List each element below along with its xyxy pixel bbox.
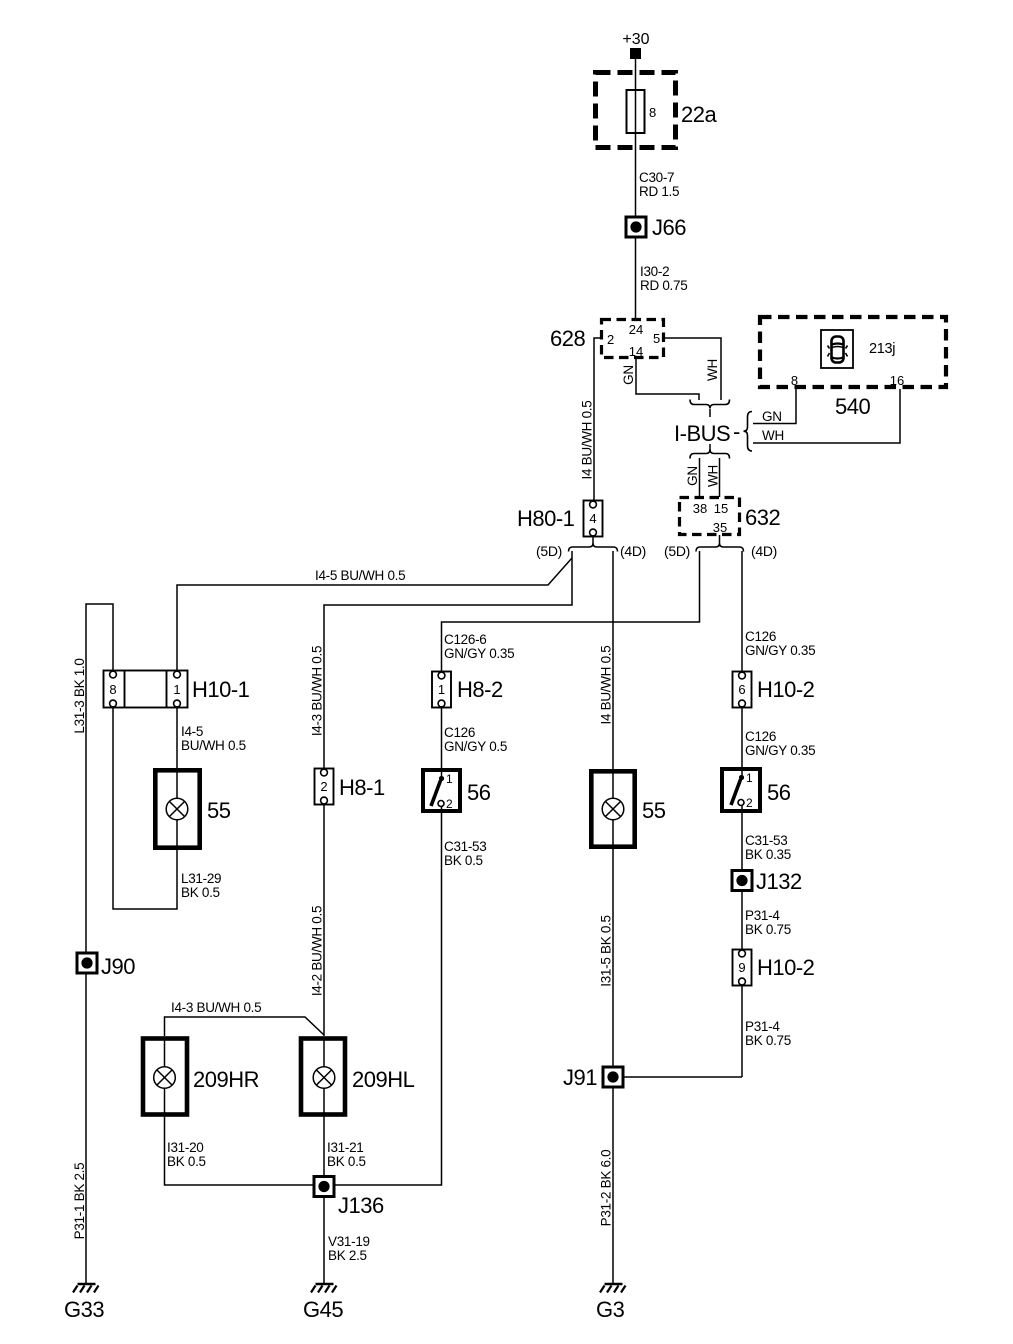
control module 540 [760, 317, 946, 419]
svg-text:BU/WH 0.5: BU/WH 0.5 [181, 738, 246, 753]
svg-text:RD 1.5: RD 1.5 [639, 184, 679, 199]
svg-text:628: 628 [550, 326, 585, 351]
svg-text:1: 1 [446, 772, 453, 786]
svg-text:BK 0.5: BK 0.5 [181, 885, 220, 900]
svg-text:56: 56 [767, 780, 791, 805]
svg-text:BK 0.75: BK 0.75 [745, 922, 791, 937]
svg-text:V31-19: V31-19 [328, 1234, 370, 1249]
svg-text:J66: J66 [652, 215, 686, 240]
fuse 8 [627, 72, 657, 148]
svg-text:1: 1 [173, 682, 180, 697]
svg-text:9: 9 [738, 960, 745, 975]
svg-text:I4-2 BU/WH 0.5: I4-2 BU/WH 0.5 [310, 906, 325, 996]
wire C30-7 RD 1.5 [636, 148, 680, 216]
svg-text:GN/GY 0.35: GN/GY 0.35 [444, 646, 514, 661]
lamp 55 left [155, 770, 230, 848]
svg-text:WH: WH [762, 428, 784, 443]
connector H80-1 [517, 501, 603, 537]
connector H8-2 [432, 672, 503, 708]
wire WH to 632 pin 15 [706, 458, 721, 497]
junction J66 [626, 215, 686, 240]
svg-text:C31-53: C31-53 [745, 833, 787, 848]
connector 632 [680, 498, 781, 536]
svg-text:2: 2 [746, 796, 753, 810]
svg-text:-: - [733, 419, 740, 444]
wire L31-29 BK 0.5 [113, 708, 221, 909]
svg-text:14: 14 [629, 344, 643, 359]
svg-text:8: 8 [649, 105, 656, 120]
branch brace under 632 [696, 544, 744, 552]
svg-text:BK 0.5: BK 0.5 [327, 1154, 366, 1169]
stub H80-1 pin 4 [592, 536, 594, 545]
switch 56 right [722, 769, 791, 811]
svg-text:H10-1: H10-1 [192, 677, 250, 702]
wire H80-1 5D branch (I4-5 BU/WH 0.5) [177, 551, 572, 671]
svg-text:G45: G45 [303, 1297, 343, 1322]
wire I30-2 RD 0.75 [636, 237, 688, 319]
svg-text:C126: C126 [745, 729, 776, 744]
svg-text:I4-5 BU/WH 0.5: I4-5 BU/WH 0.5 [315, 568, 405, 583]
svg-text:I4 BU/WH 0.5: I4 BU/WH 0.5 [599, 646, 614, 725]
svg-text:15: 15 [714, 501, 728, 516]
wire 632 4D branch (C126 GN/GY 0.35) [742, 551, 815, 671]
svg-text:6: 6 [738, 682, 745, 697]
svg-text:GN: GN [621, 365, 636, 385]
svg-text:1: 1 [438, 682, 445, 697]
svg-text:H80-1: H80-1 [517, 506, 575, 531]
svg-text:C30-7: C30-7 [639, 170, 674, 185]
lamp 209HR [143, 1038, 259, 1115]
wire C31-53 BK 0.5 to J136 [334, 807, 486, 1185]
svg-text:P31-4: P31-4 [745, 1019, 780, 1034]
svg-text:H8-2: H8-2 [457, 677, 503, 702]
svg-text:4: 4 [589, 511, 596, 526]
svg-text:L31-29: L31-29 [181, 871, 221, 886]
svg-text:I30-2: I30-2 [640, 264, 669, 279]
I-BUS label [674, 412, 752, 452]
bundle brace above I-BUS [690, 400, 730, 409]
wire I31-5 BK 0.5 [599, 847, 614, 1067]
svg-text:5: 5 [653, 331, 660, 346]
junction J91 [563, 1065, 623, 1090]
svg-text:24: 24 [629, 322, 643, 337]
svg-text:BK 0.35: BK 0.35 [745, 847, 791, 862]
svg-text:GN/GY 0.35: GN/GY 0.35 [745, 743, 815, 758]
svg-text:(4D): (4D) [751, 543, 777, 559]
wire 632 5D branch to H8-2 (C126-6 GN/GY 0.35) [442, 551, 700, 671]
svg-text:C31-53: C31-53 [444, 839, 486, 854]
car icon 213j [821, 330, 895, 368]
svg-text:209HL: 209HL [352, 1067, 415, 1092]
svg-text:H10-2: H10-2 [757, 955, 815, 980]
svg-text:WH: WH [706, 465, 721, 487]
svg-text:C126: C126 [444, 725, 475, 740]
svg-text:L31-3 BK 1.0: L31-3 BK 1.0 [72, 658, 87, 733]
svg-text:H10-2: H10-2 [757, 677, 815, 702]
ground G45 [303, 1284, 343, 1322]
svg-text:540: 540 [835, 394, 870, 419]
svg-text:35: 35 [713, 520, 727, 535]
wire 628 pin14 GN [621, 358, 699, 400]
svg-text:8: 8 [791, 373, 798, 388]
svg-text:2: 2 [446, 797, 453, 811]
connector H10-2 pin 9 [733, 950, 815, 986]
wire H80-1 5D to H8-1 (I4-3 BU/WH 0.5) [310, 558, 573, 768]
svg-text:H8-1: H8-1 [339, 775, 385, 800]
wire C126 GN/GY 0.35 (lower) [742, 707, 815, 769]
wire C126 GN/GY 0.5 [442, 707, 508, 768]
svg-text:2: 2 [320, 779, 327, 794]
svg-text:213j: 213j [869, 341, 895, 357]
wire I31-20 BK 0.5 [165, 1115, 315, 1185]
svg-text:J136: J136 [338, 1193, 384, 1218]
svg-text:38: 38 [693, 501, 707, 516]
svg-text:GN: GN [762, 409, 782, 424]
svg-text:J90: J90 [101, 954, 135, 979]
svg-text:BK 0.5: BK 0.5 [167, 1154, 206, 1169]
wire P31-4 BK 0.75 [742, 890, 791, 949]
svg-text:I31-20: I31-20 [167, 1140, 203, 1155]
svg-text:G33: G33 [64, 1297, 104, 1322]
connector 628 [550, 320, 664, 360]
svg-text:BK 0.75: BK 0.75 [745, 1033, 791, 1048]
wire J91 to right column [623, 1076, 742, 1078]
ground G3 [596, 1284, 626, 1322]
svg-text:(5D): (5D) [536, 543, 562, 559]
svg-text:16: 16 [890, 373, 904, 388]
svg-text:RD 0.75: RD 0.75 [640, 278, 687, 293]
connector H8-1 [315, 769, 385, 805]
wire 628 pin5 WH [664, 338, 721, 400]
power feed +30 [622, 31, 649, 59]
svg-text:+30: +30 [622, 31, 649, 48]
I-BUS dashed bundle line [709, 409, 711, 418]
svg-text:GN/GY 0.35: GN/GY 0.35 [745, 643, 815, 658]
wire P31-4 BK 0.75 to J91 [742, 985, 791, 1077]
svg-text:632: 632 [745, 505, 780, 530]
svg-text:I4 BU/WH 0.5: I4 BU/WH 0.5 [580, 401, 595, 480]
svg-text:I4-3 BU/WH 0.5: I4-3 BU/WH 0.5 [171, 1000, 261, 1015]
bundle brace below I-BUS [690, 450, 730, 459]
connector H10-1 [104, 671, 250, 708]
connector H10-2 pin 6 [733, 672, 815, 708]
svg-text:WH: WH [705, 359, 720, 381]
svg-text:2: 2 [607, 332, 614, 347]
wire I31-21 BK 0.5 [324, 1115, 366, 1177]
wire P31-2 BK 6.0 [599, 1087, 614, 1283]
svg-text:I31-21: I31-21 [327, 1140, 363, 1155]
wire I4-5 BU/WH 0.5 to lamp 55 [177, 708, 246, 768]
svg-text:J91: J91 [563, 1065, 597, 1090]
wire 628 pin2 to H80-1 (I4 BU/WH 0.5) [580, 338, 601, 500]
lamp 55 middle [591, 771, 665, 847]
fuse box 22a [596, 73, 718, 148]
svg-text:I31-5 BK 0.5: I31-5 BK 0.5 [599, 915, 614, 986]
svg-text:P31-2 BK 6.0: P31-2 BK 6.0 [599, 1150, 614, 1227]
svg-text:GN: GN [685, 466, 700, 486]
svg-text:P31-4: P31-4 [745, 908, 780, 923]
svg-text:56: 56 [467, 780, 491, 805]
GN branch line to 540 pin 8 [753, 389, 796, 424]
svg-text:(4D): (4D) [620, 543, 646, 559]
svg-text:1: 1 [746, 771, 753, 785]
wire V31-19 BK 2.5 [324, 1196, 370, 1283]
junction J90 [77, 953, 135, 979]
svg-text:C126-6: C126-6 [444, 632, 486, 647]
svg-text:55: 55 [207, 798, 231, 823]
svg-text:I4-3 BU/WH 0.5: I4-3 BU/WH 0.5 [310, 646, 325, 736]
junction J132 [732, 869, 802, 894]
svg-text:P31-1 BK 2.5: P31-1 BK 2.5 [72, 1163, 87, 1240]
wire I4-3 BU/WH 0.5 to 209HR [165, 1000, 325, 1036]
lamp 209HL [301, 1038, 415, 1115]
wire C31-53 BK 0.35 [742, 806, 791, 870]
branch brace under H80-1 [569, 544, 618, 552]
svg-text:G3: G3 [596, 1297, 625, 1322]
svg-text:BK 0.5: BK 0.5 [444, 853, 483, 868]
junction J136 [314, 1177, 384, 1219]
wire L31-3 BK 1.0 [72, 604, 113, 953]
svg-text:BK 2.5: BK 2.5 [328, 1248, 367, 1263]
wire +30 to fuse box [635, 59, 637, 72]
svg-text:22a: 22a [681, 102, 717, 127]
WH branch line to 540 pin 16 [753, 389, 900, 443]
wire P31-1 BK 2.5 [72, 973, 87, 1283]
svg-text:C126: C126 [745, 629, 776, 644]
svg-text:209HR: 209HR [193, 1067, 259, 1092]
svg-text:(5D): (5D) [664, 543, 690, 559]
wire GN to 632 pin 38 [685, 458, 700, 497]
ground G33 [64, 1284, 104, 1322]
svg-text:GN/GY 0.5: GN/GY 0.5 [444, 739, 507, 754]
svg-text:8: 8 [109, 682, 116, 697]
wire H80-1 4D branch (I4 BU/WH 0.5) to lamp 55 [599, 551, 614, 769]
switch 56 left [423, 770, 491, 811]
wire I4-2 BU/WH 0.5 [310, 804, 325, 1036]
svg-text:I-BUS: I-BUS [674, 421, 730, 446]
svg-text:55: 55 [642, 798, 666, 823]
svg-text:J132: J132 [756, 869, 802, 894]
stub 632 pin 35 [719, 535, 721, 545]
svg-text:I4-5: I4-5 [181, 724, 203, 739]
